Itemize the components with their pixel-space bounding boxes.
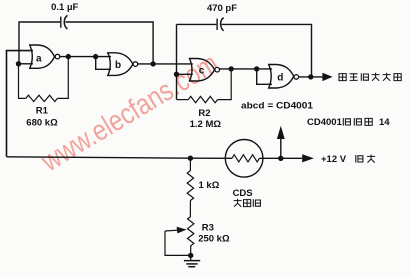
wire R3 bottom to ground bbox=[190, 246, 192, 261]
node gate c input junction bbox=[174, 72, 179, 77]
node gate d output junction bbox=[308, 74, 313, 79]
label CD4001 pin14 note bbox=[307, 117, 390, 128]
NOR gate a bbox=[30, 45, 60, 68]
wire gate a lower input bbox=[19, 63, 34, 65]
svg-text:R2: R2 bbox=[198, 108, 210, 119]
svg-text:0.1 µF: 0.1 µF bbox=[51, 2, 78, 13]
svg-text:CDS: CDS bbox=[233, 188, 253, 199]
wire left rail: gate a upper input to bottom rail bbox=[7, 51, 34, 157]
svg-text:b: b bbox=[115, 60, 121, 71]
node gate a output junction bbox=[66, 54, 71, 59]
wire wiper to bottom terminal bbox=[165, 231, 191, 255]
ground bbox=[184, 261, 200, 267]
label +12 V 输入 bbox=[321, 154, 375, 165]
wire gate b lower input jog bbox=[96, 57, 111, 70]
wire gate d lower input jog bbox=[257, 69, 272, 84]
svg-text:1 kΩ: 1 kΩ bbox=[199, 180, 220, 191]
svg-text:a: a bbox=[36, 53, 42, 64]
wire gate c lower input bbox=[177, 73, 193, 75]
svg-text:680 kΩ: 680 kΩ bbox=[26, 117, 58, 128]
svg-text:470 pF: 470 pF bbox=[207, 3, 237, 14]
node gate a input junction bbox=[16, 61, 21, 66]
svg-text:abcd = CD4001: abcd = CD4001 bbox=[241, 100, 314, 111]
svg-text:R1: R1 bbox=[36, 106, 49, 117]
wire bottom rail right bbox=[259, 157, 280, 159]
wire gate d output bbox=[298, 76, 323, 78]
resistor R2 leads and zigzag bbox=[177, 69, 232, 103]
label CDS 光电池 bbox=[234, 199, 261, 207]
node gate b input junction bbox=[93, 54, 98, 59]
capacitor C1 plates bbox=[61, 15, 68, 29]
capacitor C2 plates bbox=[217, 18, 224, 31]
wire C1 left lead to gate a input node bbox=[19, 22, 60, 64]
svg-text:14: 14 bbox=[379, 117, 390, 128]
node gate c output junction bbox=[229, 66, 234, 71]
node +12V junction bbox=[278, 156, 283, 161]
wire gate a output to gate b input bbox=[60, 56, 111, 58]
svg-text:250 kΩ: 250 kΩ bbox=[198, 234, 230, 245]
wire +12V arrow lead bbox=[281, 157, 303, 159]
NOR gate c bbox=[190, 59, 220, 82]
node gate b output junction bbox=[150, 61, 155, 66]
resistor R1 leads and zigzag bbox=[19, 57, 69, 102]
NOR gate b bbox=[108, 53, 138, 76]
wire C2 left rail through gate c input down to R2 bbox=[176, 24, 178, 99]
wire up to CD4001 pin 14 bbox=[280, 139, 282, 159]
wire bottom node to 1k resistor bbox=[189, 158, 191, 170]
svg-text:c: c bbox=[199, 66, 205, 77]
output arrow to audio amplifier bbox=[322, 73, 332, 81]
wire C1 right lead to gate b output node bbox=[65, 22, 153, 64]
svg-text:CD4001: CD4001 bbox=[307, 117, 343, 128]
photocell CDS circle bbox=[225, 140, 263, 178]
wire bottom rail left bbox=[7, 157, 233, 159]
node R3 bottom junction bbox=[188, 253, 193, 258]
NOR gate d bbox=[269, 65, 299, 89]
svg-text:+12 V: +12 V bbox=[321, 154, 347, 165]
svg-text:R3: R3 bbox=[202, 222, 214, 233]
arrow +12V input bbox=[302, 154, 314, 162]
wire gate b output to gate c upper input bbox=[138, 63, 193, 65]
label output 接音频放大器 bbox=[339, 73, 401, 81]
svg-text:1.2 MΩ: 1.2 MΩ bbox=[190, 119, 222, 130]
potentiometer R3 zigzag bbox=[188, 217, 194, 246]
arrow up pin 14 bbox=[277, 126, 285, 139]
wire gate c output to gate d input bbox=[219, 68, 272, 70]
resistor 1k zigzag bbox=[187, 171, 193, 201]
wire C2 top rail right segment to gate d output node bbox=[222, 24, 312, 77]
node bottom rail junction at 1k bbox=[188, 156, 193, 161]
wire 1k to R3 bbox=[189, 200, 191, 216]
R3 wiper arrow bbox=[165, 227, 187, 234]
wire C2 top rail left segment bbox=[177, 23, 217, 25]
node gate d input junction bbox=[254, 66, 259, 71]
svg-text:d: d bbox=[277, 72, 283, 83]
